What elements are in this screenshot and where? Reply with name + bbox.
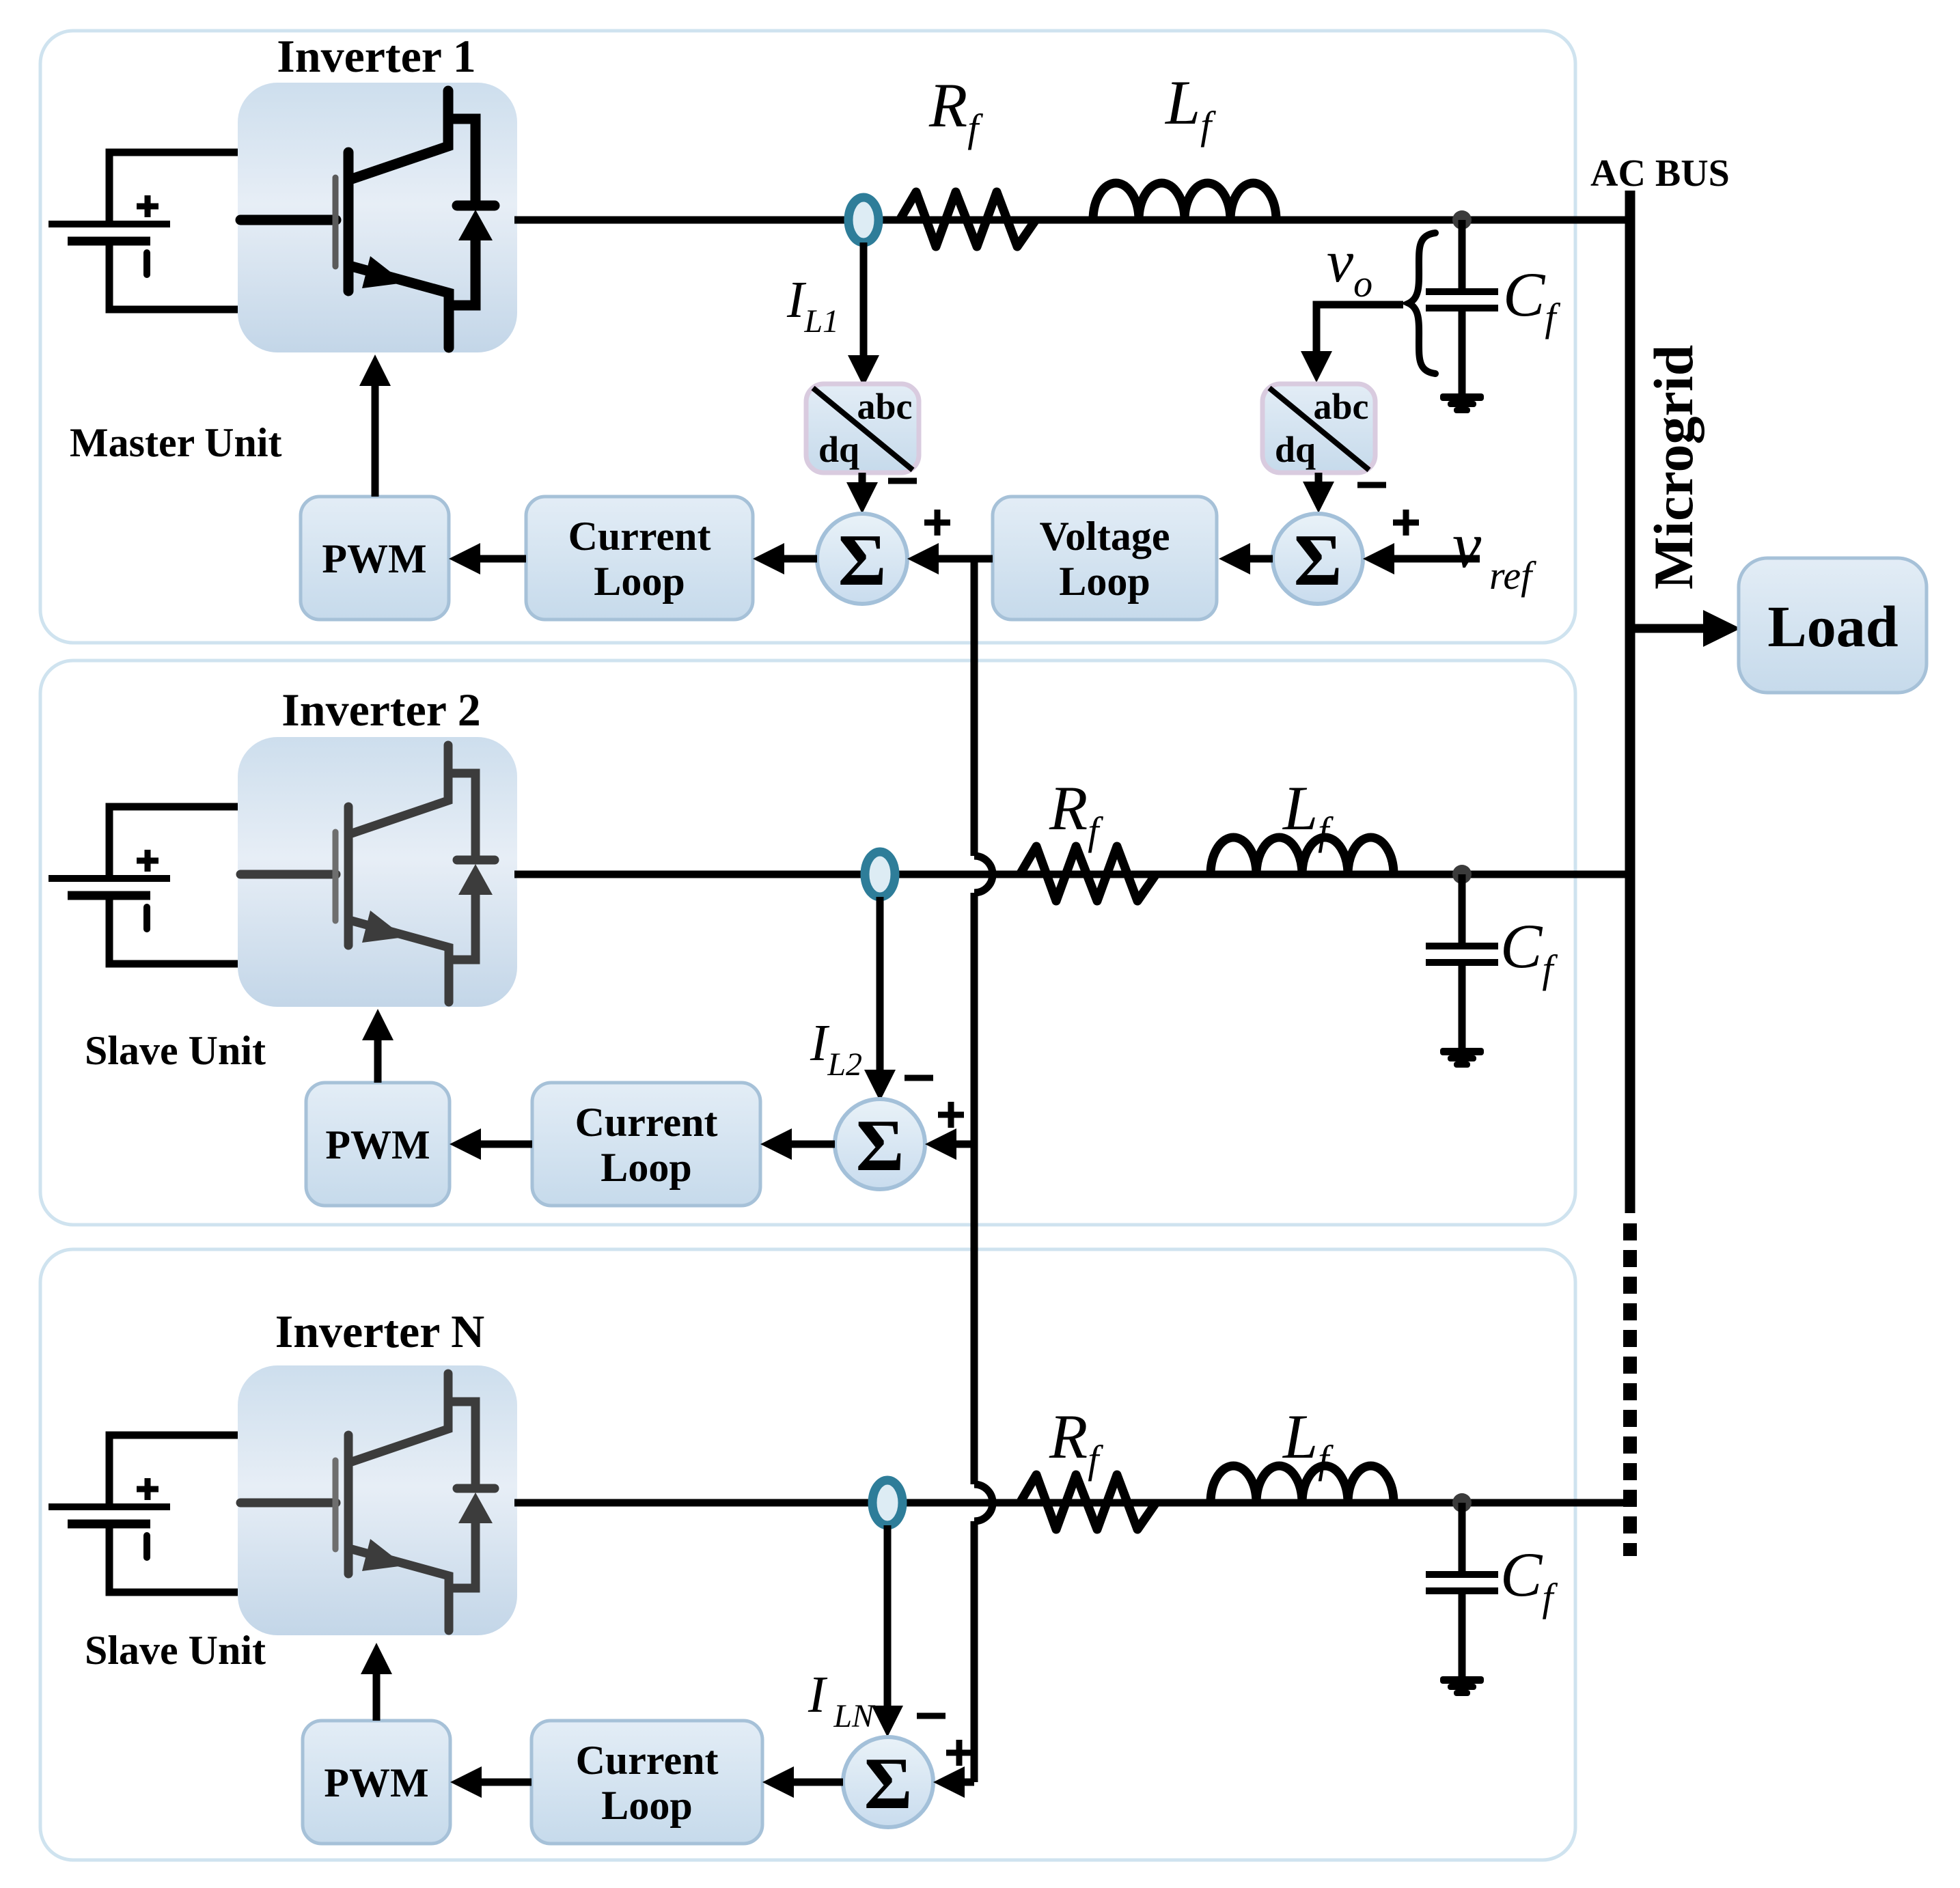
svg-text:Slave Unit: Slave Unit (85, 1028, 266, 1073)
svg-text:ref: ref (1489, 553, 1536, 598)
block Current Loop (2) (532, 1083, 760, 1206)
svg-text:Σ: Σ (838, 520, 887, 601)
minus sign at sum2 (905, 1075, 933, 1081)
current arrow IL2 down from sensor (877, 897, 884, 1070)
plus sign at sum3 (946, 1740, 972, 1766)
arrow bus to Load (1630, 624, 1703, 633)
minus sign at sum3 (917, 1713, 946, 1719)
arrow sum2 to Current Loop (2) (792, 1141, 835, 1148)
svg-text:Microgrid: Microgrid (1642, 345, 1704, 589)
IGBT transistor symbol 1 (240, 91, 495, 348)
arrow sum v to Voltage Loop (1250, 555, 1273, 563)
svg-text:Current: Current (568, 514, 711, 559)
curly brace for vo (1409, 233, 1435, 374)
panel frame: Slave Unit (Inverter 2) (40, 661, 1575, 1225)
junction node (1452, 865, 1472, 884)
resistor Rf (inverter 2) (1020, 846, 1156, 901)
inductor Lf (inverter 2) (1211, 837, 1394, 874)
current arrow ILN down from sensor (884, 1525, 892, 1706)
arrow Current Loop to PWM (1) (480, 555, 526, 563)
svg-text:Loop: Loop (1059, 559, 1150, 604)
IGBT transistor symbol 3 (240, 1374, 495, 1630)
battery B3 (DC source) (49, 1435, 238, 1592)
svg-text:Current: Current (576, 1738, 719, 1783)
abc/dq transform block current abc/dq (1) (806, 384, 919, 473)
svg-text:Inverter 1: Inverter 1 (277, 30, 475, 82)
current sensor (872, 1480, 902, 1525)
battery B2 (DC source) (49, 807, 238, 964)
summing junction sum2 (835, 1099, 925, 1189)
abc/dq transform block voltage abc/dq (1262, 384, 1375, 473)
resistor Rf (inverter N) (1020, 1475, 1156, 1529)
plus sign at sum2 (938, 1102, 964, 1128)
wire hop over inverter N output (974, 1484, 993, 1521)
arrow voltage abc/dq to sum v (1315, 473, 1323, 482)
capacitor Cf (1426, 1503, 1498, 1678)
svg-text:Loop: Loop (601, 1145, 691, 1190)
svg-text:Load: Load (1767, 594, 1898, 659)
svg-text:Inverter N: Inverter N (275, 1305, 485, 1357)
AC bus solid line (1625, 191, 1635, 1213)
arrow Current Loop to PWM (2) (481, 1141, 532, 1148)
svg-text:Voltage: Voltage (1039, 514, 1170, 559)
svg-text:abc: abc (1314, 386, 1369, 427)
svg-text:PWM: PWM (325, 1122, 430, 1167)
wire: inverter 1 output to AC bus (514, 217, 1633, 224)
inductor Lf (inverter N) (1211, 1466, 1394, 1503)
inverter block (IGBT) box 1 (238, 83, 517, 352)
svg-text:Σ: Σ (864, 1743, 913, 1824)
ground (1440, 1048, 1484, 1068)
inverter block (IGBT) box 2 (238, 737, 517, 1007)
svg-text:dq: dq (818, 429, 859, 470)
junction node (1452, 210, 1472, 230)
IGBT transistor symbol 2 (240, 745, 495, 1002)
arrow PWM to inverter N (373, 1674, 381, 1721)
svg-text:Loop: Loop (594, 559, 685, 604)
resistor Rf (inverter 1) (900, 192, 1036, 247)
capacitor Cf (1426, 220, 1498, 395)
arrow feedback to sum3 (965, 1779, 974, 1786)
inverter block (IGBT) box 3 (238, 1365, 517, 1635)
svg-text:Master Unit: Master Unit (70, 420, 282, 465)
panel frame: Master Unit (Inverter 1) (40, 31, 1575, 643)
block PWM (N) (303, 1721, 450, 1844)
capacitor Cf (1426, 874, 1498, 1049)
ground (1440, 393, 1484, 413)
arrow abc/dq to sum1 (859, 473, 866, 482)
arrow feedback to sum2 (956, 1141, 974, 1148)
svg-text:v: v (1452, 509, 1482, 581)
arrow Voltage Loop to sum1 (939, 555, 993, 563)
summing junction sum v (1273, 514, 1363, 604)
svg-text:AC BUS: AC BUS (1590, 152, 1730, 195)
current sensor (848, 197, 879, 242)
arrow vref to sum v (1394, 555, 1480, 563)
vo tap wire and arrow (1316, 305, 1403, 351)
arrow sum3 to Current Loop (N) (794, 1779, 843, 1786)
wire hop over inverter 2 output (974, 856, 993, 893)
block Voltage Loop (993, 497, 1217, 620)
svg-text:Σ: Σ (856, 1105, 905, 1186)
Load box (1739, 558, 1927, 693)
svg-text:Slave Unit: Slave Unit (85, 1628, 266, 1673)
battery B1 (DC source) (49, 152, 238, 309)
arrow PWM to inverter 2 (374, 1040, 382, 1083)
summing junction sum3 (843, 1737, 933, 1827)
arrow sum1 to Current Loop (1) (784, 555, 817, 563)
block Current Loop (1) (526, 497, 753, 620)
svg-text:dq: dq (1275, 429, 1316, 470)
current arrow IL1 down from sensor (860, 242, 868, 355)
wire: inverter N output to AC bus (514, 1499, 1628, 1507)
plus sign at sum v (1393, 510, 1419, 536)
summing junction sum1 (817, 514, 907, 604)
ground (1440, 1676, 1484, 1696)
svg-text:Σ: Σ (1294, 520, 1342, 601)
svg-text:abc: abc (857, 386, 913, 427)
arrow PWM to inverter 1 (372, 386, 379, 497)
panel frame: Slave Unit (Inverter N) (40, 1249, 1575, 1860)
current sensor (865, 852, 895, 897)
svg-text:Inverter 2: Inverter 2 (281, 684, 480, 736)
wire: inverter 2 output to AC bus (514, 871, 1633, 878)
arrow Current Loop to PWM (N) (482, 1779, 532, 1786)
svg-text:Current: Current (575, 1100, 718, 1145)
plus sign at sum1 (924, 510, 950, 536)
block PWM (2) (306, 1083, 450, 1206)
AC bus dashed continuation (1623, 1223, 1637, 1556)
block Current Loop (N) (532, 1721, 762, 1844)
minus sign at sum v (1357, 482, 1386, 488)
minus sign at sum1 (888, 478, 917, 484)
block PWM (1) (301, 497, 449, 620)
svg-text:Loop: Loop (601, 1783, 692, 1828)
feedback wire from voltage loop output down to slave units (971, 559, 978, 1782)
svg-text:PWM: PWM (324, 1760, 428, 1805)
junction node (1452, 1493, 1472, 1512)
svg-text:PWM: PWM (322, 536, 426, 581)
inductor Lf (inverter 1) (1093, 183, 1276, 220)
